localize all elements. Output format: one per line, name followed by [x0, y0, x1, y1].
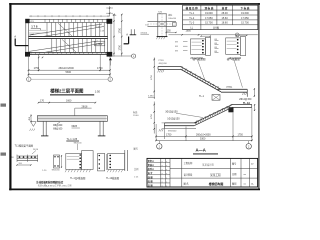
svg-text:A: A [126, 32, 128, 36]
plan bottom small ticks near wall [38, 57, 40, 59]
svg-text:TL-1 1:25: TL-1 1:25 [67, 138, 78, 141]
svg-text:x: x [162, 161, 163, 163]
left margin binding mark lower [1, 153, 7, 156]
svg-text:Ф8@200: Ф8@200 [52, 169, 61, 172]
beam elevation: left dimension marks [30, 114, 32, 122]
svg-text:PTB1: PTB1 [227, 87, 233, 89]
section A-A lower flight: left end dim ticks [162, 122, 165, 124]
section A-A upper flight: wall hatch below top landing [158, 70, 159, 73]
section A-A lower flight: top landing slab [233, 103, 252, 105]
detail strip: center section bottom hatch [65, 170, 66, 173]
svg-text:TL-2: TL-2 [189, 17, 195, 20]
svg-text:240x240: 240x240 [168, 18, 177, 20]
detail section &#26799;TL&#25130;&#38754;&#22270;: slab rebar lines [227, 40, 237, 42]
svg-text:x: x [162, 185, 163, 187]
title block: left column vertical lines [160, 158, 162, 187]
stair column TZ1 joint plan detail: right end hook [173, 22, 177, 26]
title block: left column row lines [147, 161, 170, 163]
svg-text:1750: 1750 [151, 113, 153, 119]
detail section &#26799;TL&#25130;&#38754;&#22270;: rebar dots [202, 40, 204, 42]
svg-text:楼梯2三层平面图: 楼梯2三层平面图 [50, 88, 84, 95]
section A-A lower flight: hatch below landing left end [159, 129, 160, 131]
svg-text:1:50: 1:50 [95, 90, 101, 94]
schedule table frame [183, 5, 258, 29]
detail strip: center section slab rebar lines [67, 156, 79, 158]
svg-text:260x10=2600: 260x10=2600 [59, 67, 75, 70]
svg-text:2Ф12@150: 2Ф12@150 [190, 57, 203, 60]
svg-text:Ф8@200: Ф8@200 [168, 130, 177, 133]
section A-A lower flight: beam block at top landing [228, 107, 233, 112]
svg-text:顶 标 高: 顶 标 高 [204, 6, 213, 10]
detail section &#26799;TL&#25130;&#38754;&#22270;: slab outline [191, 39, 206, 54]
detail strip: left detail leaders [32, 151, 36, 155]
small support symbol at left margin [130, 29, 132, 34]
svg-text:3Ф12@150: 3Ф12@150 [165, 110, 178, 113]
section A-A upper flight: bottom landing slab [218, 88, 248, 90]
svg-text:x: x [166, 173, 167, 175]
stair plan: middle landing band [29, 36, 108, 38]
detail strip: left connection detail horizontal bars [17, 155, 38, 157]
svg-text:1Ф12@150: 1Ф12@150 [167, 118, 180, 121]
stair plan: lower flight walk line [30, 41, 99, 51]
svg-text:x: x [162, 165, 163, 167]
svg-text:1750: 1750 [119, 27, 122, 33]
detail B top dim [236, 34, 248, 36]
svg-text:梯 段 名 称: 梯 段 名 称 [185, 6, 199, 10]
svg-text:1750: 1750 [166, 133, 172, 136]
svg-text:19.600: 19.600 [205, 12, 213, 15]
stair column TZ1 joint plan detail: joint hatch [158, 22, 166, 27]
detail strip: right section bottom hatch [107, 170, 108, 172]
detail strip: center section top leader [77, 144, 79, 150]
svg-text:A—A: A—A [196, 148, 206, 153]
stair plan: upper flight second walk line [42, 27, 104, 37]
detail B left tick column [215, 40, 219, 42]
svg-text:2Ф12@150: 2Ф12@150 [239, 98, 252, 101]
svg-text:x: x [166, 165, 167, 167]
plan bottom extension lines [28, 55, 30, 77]
beam elevation: right post [99, 121, 101, 135]
stair plan: lower flight break slash [62, 39, 76, 52]
schedule table row lines [183, 14, 258, 16]
svg-text:1Ф12@150: 1Ф12@150 [228, 57, 241, 60]
section A-A upper flight: tread steps on slab [181, 66, 183, 68]
svg-text:1750: 1750 [119, 44, 122, 50]
svg-text:高 度: 高 度 [222, 6, 228, 10]
stair plan: dimension row above top wall [29, 15, 110, 17]
plan right side inner dimension line [113, 15, 115, 57]
detail section &#26799;TL&#25130;&#38754;&#22270;: slab outline [226, 38, 241, 54]
svg-text:17.650: 17.650 [241, 17, 249, 20]
svg-text:x: x [162, 169, 163, 171]
svg-text:x: x [166, 185, 167, 187]
svg-text:Ф8@100: Ф8@100 [53, 128, 63, 131]
detail strip: right section tall edge line [124, 150, 126, 171]
svg-text:15.60: 15.60 [221, 17, 228, 20]
svg-text:6Ф25: 6Ф25 [72, 125, 78, 128]
beam elevation: left post [42, 121, 44, 135]
stair column TZ1 joint plan detail: hatch below base [156, 37, 157, 39]
svg-text:14-: 14- [251, 183, 254, 185]
detail A top dim [201, 35, 212, 37]
section A-A upper flight: sloped slab band [181, 67, 222, 90]
stair plan: corner column top-right [107, 19, 113, 24]
svg-text:某某工程: 某某工程 [210, 173, 221, 177]
detail section &#26799;TL&#25130;&#38754;&#22270;: edge beam rect [206, 37, 211, 55]
beam elevation: longitudinal rebar line [38, 118, 107, 120]
drawing sheet border frame [9, 3, 260, 5]
stair plan: left wall double line [25, 19, 27, 54]
svg-text:共6根: 共6根 [213, 26, 220, 30]
svg-text:●●: ●● [244, 174, 246, 176]
stair column TZ1 joint plan detail: top cap [157, 13, 167, 15]
stair plan: upper flight walk line with arrow [30, 24, 103, 35]
plan bottom dimension line [29, 69, 111, 71]
detail strip: center section beam rect [82, 151, 94, 170]
schedule table header separator [183, 9, 258, 11]
stair column TZ1 joint plan detail: column verticals [157, 14, 159, 37]
section A-A lower flight: tread steps on slab [230, 103, 232, 105]
svg-text:PTB1: PTB1 [159, 60, 165, 62]
plan axis bubble 2 [108, 77, 112, 81]
stair plan: corner column bottom-right [107, 52, 113, 57]
title block: middle column lines [170, 168, 231, 170]
detail strip: left detail rebar dots [19, 156, 21, 158]
svg-text:19.600: 19.600 [241, 12, 249, 15]
section A-A upper flight: left dimension line [153, 58, 155, 100]
beam elevation: top dimension line [39, 102, 96, 104]
stair plan: corner column top-left [25, 19, 29, 23]
stair plan: lower flight second walk line [44, 43, 104, 52]
svg-text:TL-1: TL-1 [189, 12, 195, 15]
svg-text:PTB1: PTB1 [96, 42, 103, 46]
section A-A bottom dimension line [156, 135, 252, 137]
svg-text:●●: ●● [244, 183, 246, 185]
svg-text:260x10=2600: 260x10=2600 [196, 133, 211, 136]
section A-A lower flight: beam line under landing [164, 128, 196, 130]
svg-text:17.650: 17.650 [205, 17, 213, 20]
svg-text:170: 170 [40, 100, 45, 103]
title block: outer frame [147, 158, 258, 187]
stair plan: bottom wall band [26, 51, 112, 53]
svg-text:19.60: 19.60 [133, 115, 139, 117]
detail strip: right section rebar dots [109, 155, 111, 157]
detail strip: center section rebar dots [79, 154, 81, 156]
detail section &#26799;TL&#25130;&#38754;&#22270;: slab rebar lines [192, 41, 202, 43]
svg-text:15.700: 15.700 [241, 22, 249, 25]
svg-text:x: x [166, 177, 167, 179]
stair plan: corner column bottom-left [25, 52, 30, 57]
detail strip: right section slab outline [108, 154, 125, 170]
section A-A lower flight: bottom landing slab [164, 122, 197, 124]
svg-text:x: x [162, 173, 163, 175]
long datum line with axis bubble [169, 34, 258, 36]
section cut mark A at right of plan [128, 37, 130, 44]
svg-text:18.60: 18.60 [221, 22, 228, 25]
svg-text:x: x [162, 177, 163, 179]
stair plan: landing edge faint lines [29, 29, 46, 31]
section A-A lower flight: right dimension marks [254, 104, 256, 111]
svg-text:1750: 1750 [238, 133, 244, 136]
svg-text:1950: 1950 [186, 29, 192, 32]
stair column TZ1 joint plan detail: beam horizontals [148, 21, 177, 23]
svg-text:A: A [14, 34, 16, 38]
svg-text:2Ф18: 2Ф18 [82, 105, 88, 108]
plan axis bubble 5 with leader right of plan [111, 55, 131, 57]
detail strip: small column section detail [54, 155, 60, 168]
detail strip: left detail vertical ticks [16, 155, 18, 162]
section A-A bottom extension lines [155, 124, 157, 141]
section A-A lower flight: sloped slab band [194, 104, 232, 123]
svg-text:15.700: 15.700 [205, 22, 213, 25]
svg-text:1660: 1660 [66, 100, 72, 103]
section A-A upper flight: top landing slab [158, 66, 181, 68]
svg-text:x: x [166, 169, 167, 171]
stair plan: upper flight break slash [58, 23, 72, 36]
title block: right column lines [230, 158, 232, 187]
beam elevation: beam body [37, 116, 107, 122]
svg-text:x: x [162, 181, 163, 183]
section A-A upper flight: hatch below landing right end [242, 93, 243, 96]
stair plan: right wall double line [107, 19, 109, 56]
plan bottom elevation triangle marker [109, 58, 112, 61]
svg-text:1750: 1750 [151, 74, 153, 80]
svg-text:Ф8@200: Ф8@200 [53, 124, 63, 127]
beam elevation: left end support triangle [31, 122, 37, 127]
section cut mark A at left of plan [14, 39, 16, 46]
plan bottom overall dimension line 5300 [29, 73, 111, 75]
detail section &#26799;TL&#25130;&#38754;&#22270;: edge beam rect [240, 37, 245, 56]
stair plan: top tread band (upper storey flight) [26, 18, 112, 20]
svg-text:28.00: 28.00 [221, 12, 228, 15]
stair plan: upper flight treads [46, 23, 48, 37]
svg-text:TL-1: TL-1 [199, 95, 205, 98]
stair plan: lower flight treads [51, 39, 53, 53]
detail strip: narrow column between details [98, 154, 105, 171]
svg-text:x: x [166, 161, 167, 163]
plan axis bubble 1 [27, 77, 31, 81]
section A-A upper flight: right edge dimension [253, 88, 255, 97]
detail strip: left detail dim below [17, 164, 31, 166]
section A-A lower flight: left dimension line [153, 102, 155, 134]
svg-text:x: x [166, 181, 167, 183]
svg-text:下 标 高: 下 标 高 [241, 6, 250, 10]
svg-text:Ф8@200: Ф8@200 [159, 62, 168, 65]
plan top-right small dimension marks [109, 6, 111, 16]
svg-text:1750: 1750 [34, 67, 40, 70]
plan right side outer dimension line [121, 15, 123, 57]
svg-text:楼梯结构图: 楼梯结构图 [209, 181, 224, 186]
svg-text:5300: 5300 [200, 137, 206, 140]
section A-A axis bubble left [158, 141, 160, 144]
stair column TZ1 joint plan detail: base line [157, 36, 168, 38]
svg-text:2Ф16: 2Ф16 [33, 148, 39, 151]
detail strip: center section TL-1 and 2 slab outline [66, 154, 82, 170]
svg-text:TL-3: TL-3 [189, 22, 195, 25]
detail section &#26799;TL&#25130;&#38754;&#22270;: rebar dots [237, 39, 239, 41]
svg-text:1750: 1750 [97, 67, 103, 70]
section A-A overall dimension line 5300 [156, 139, 252, 141]
beam elevation: stirrups [38, 116, 40, 121]
plan axis line between bubbles [31, 78, 108, 80]
stair plan: lower flight label box PTB1 [95, 41, 105, 46]
schedule table column lines [200, 5, 202, 29]
svg-text:5300: 5300 [66, 71, 72, 74]
section A-A axis bubble right [248, 141, 250, 144]
left margin binding mark upper [1, 104, 7, 107]
svg-text:1 7 8: 1 7 8 [31, 24, 38, 28]
svg-text:Ф8@200: Ф8@200 [74, 141, 83, 144]
svg-text:TL1梯段梁平面图: TL1梯段梁平面图 [15, 143, 34, 147]
